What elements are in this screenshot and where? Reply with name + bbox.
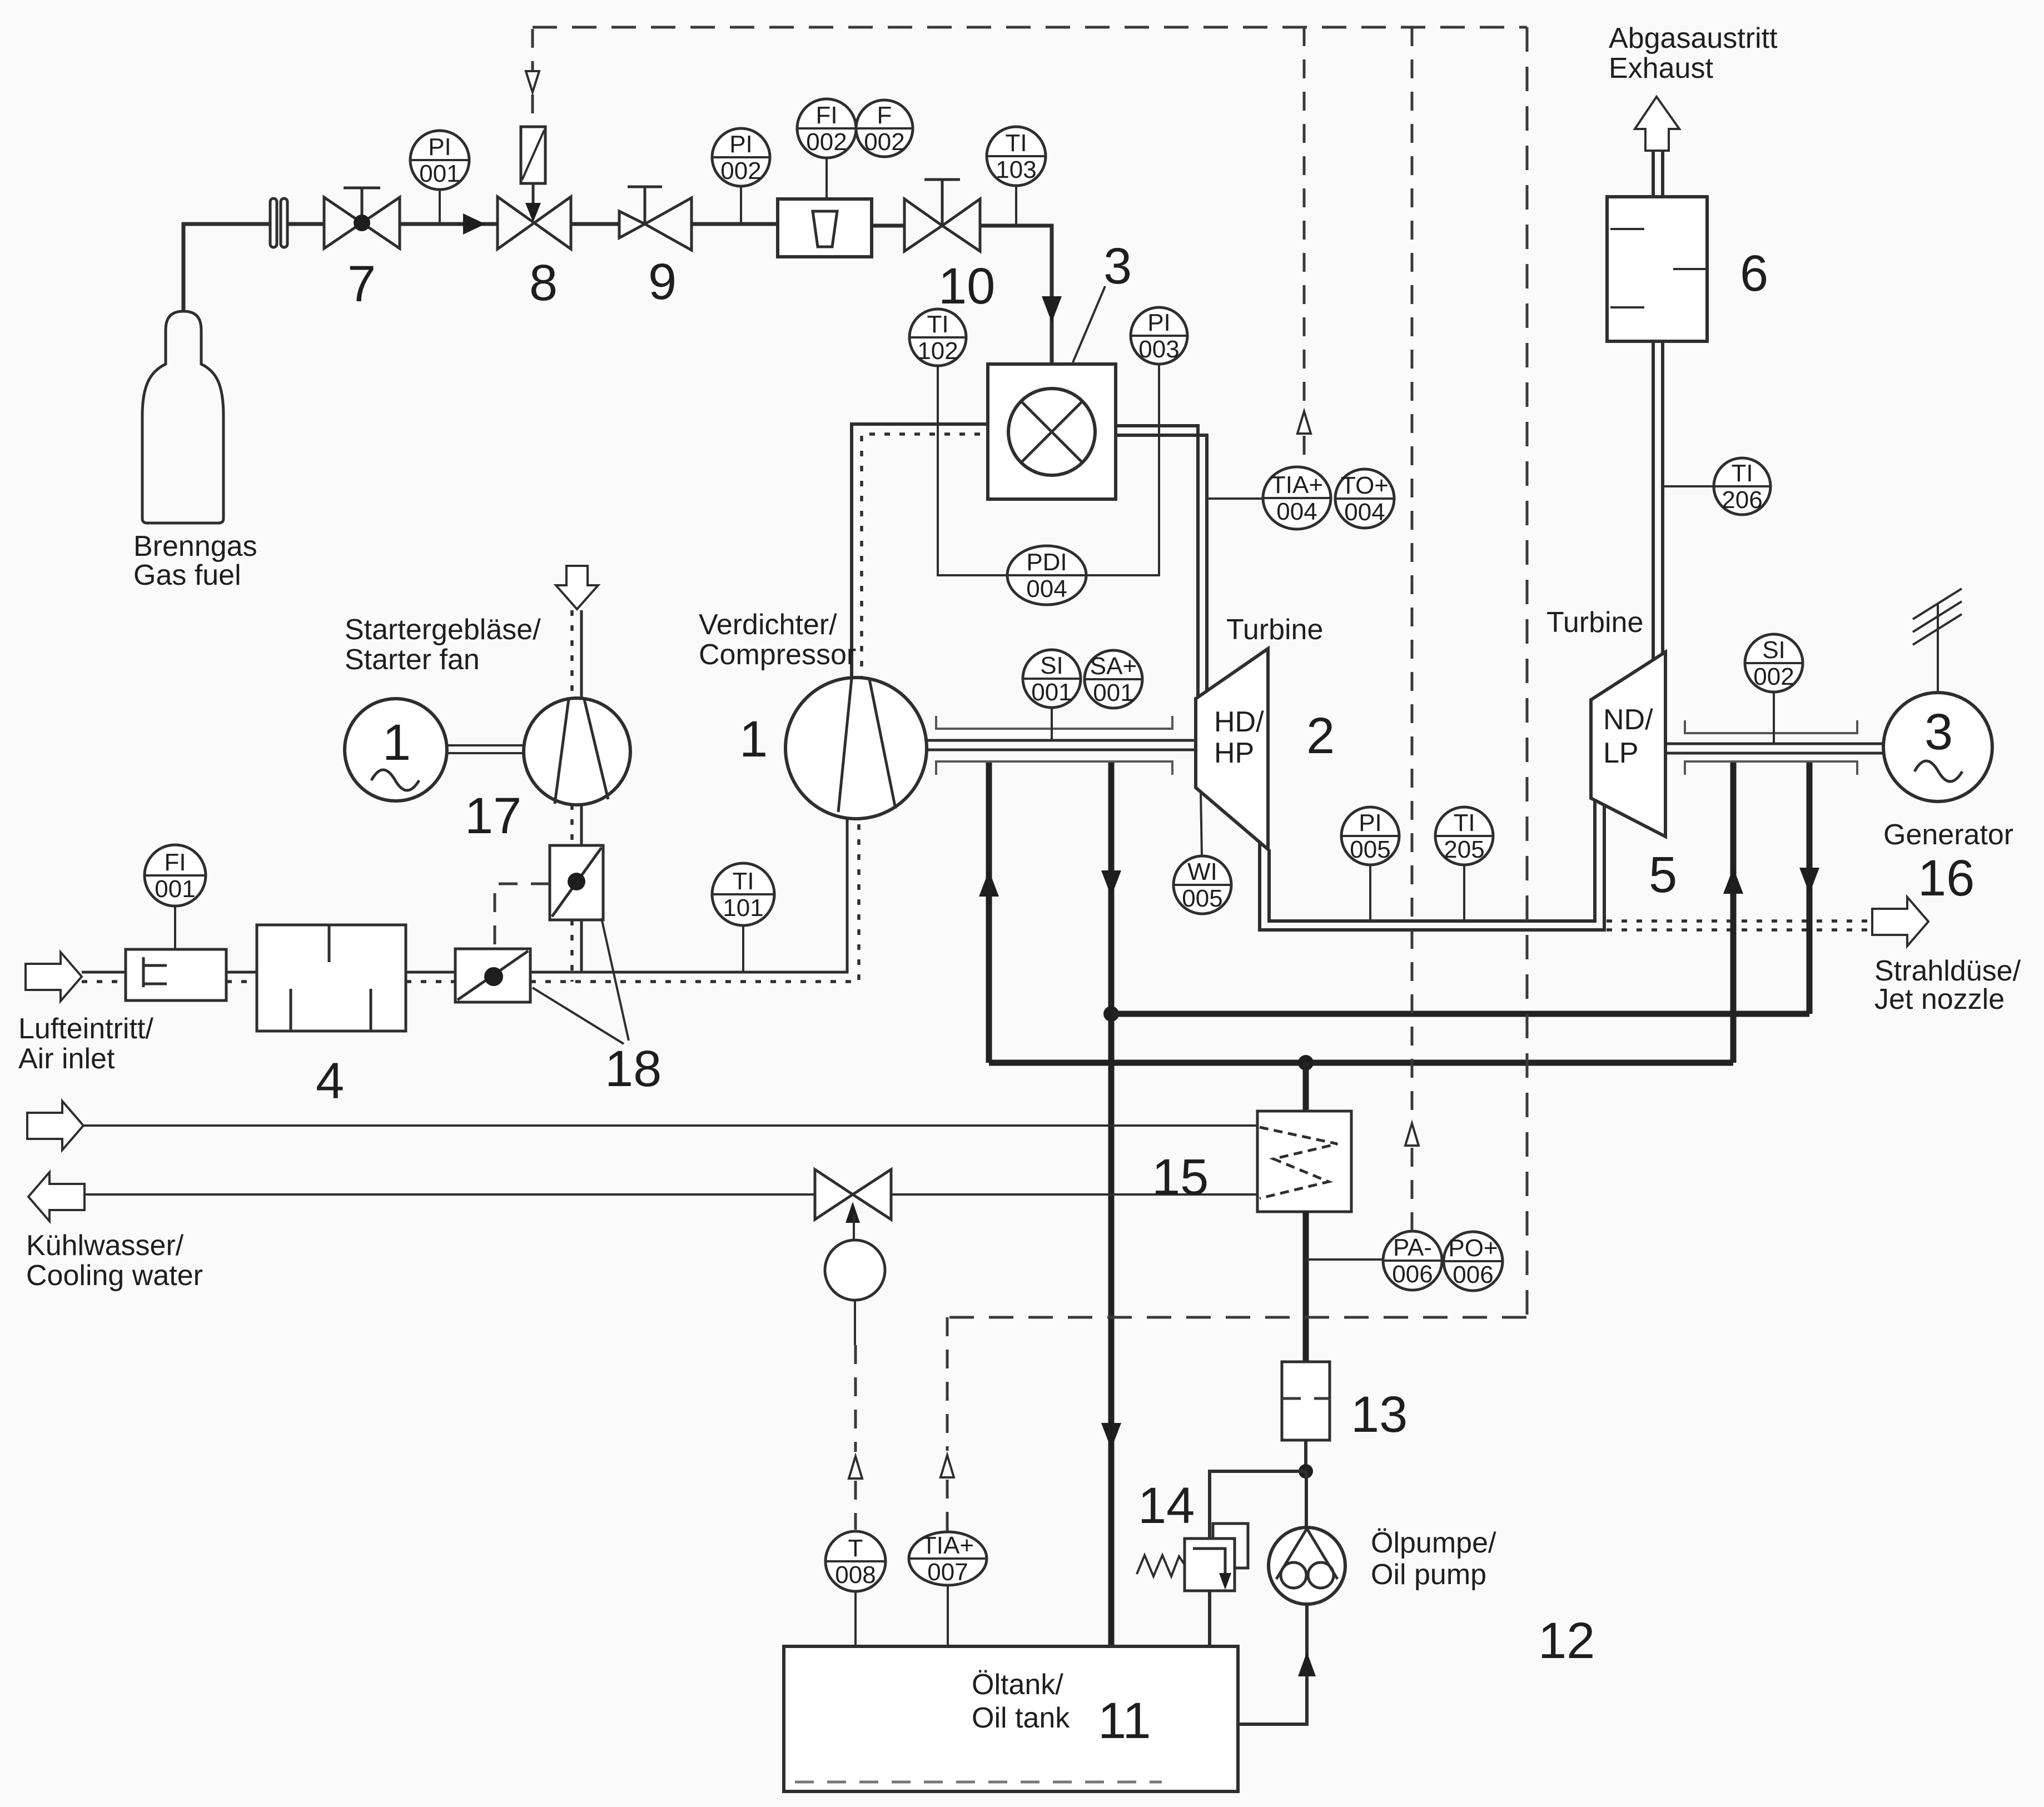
wire junction to relief valve 14 — [1210, 1471, 1306, 1539]
instrument WI 005 — [1173, 856, 1231, 914]
svg-text:8: 8 — [529, 255, 558, 311]
instrument TI 206 — [1714, 458, 1771, 515]
instrument TI 205 — [1463, 865, 1465, 921]
svg-text:TI: TI — [1005, 130, 1027, 157]
svg-text:1: 1 — [739, 711, 768, 768]
svg-text:HP: HP — [1214, 737, 1254, 769]
oil supply header — [989, 1060, 1733, 1066]
svg-text:Verdichter/: Verdichter/ — [699, 609, 837, 641]
svg-text:ND/: ND/ — [1603, 704, 1653, 736]
svg-text:PO+: PO+ — [1448, 1234, 1498, 1262]
instrument TI 103 — [1015, 186, 1017, 225]
oil return line B (to tank) — [1108, 763, 1115, 1646]
svg-text:005: 005 — [1182, 885, 1222, 912]
instrument FI 002 — [825, 158, 828, 199]
lead to TIA+/TO+ 004 — [1207, 497, 1264, 500]
svg-text:15: 15 — [1152, 1149, 1209, 1206]
oil drop line D (LP bearing return) — [1807, 763, 1813, 1014]
svg-text:Cooling water: Cooling water — [26, 1260, 203, 1292]
cooling water supply line — [83, 1124, 1257, 1127]
instrument TO+ 004 — [1335, 469, 1394, 528]
oil drop line C (LP bearing supply) — [1730, 763, 1737, 1063]
dashed signal actuator to T 008 — [854, 1300, 856, 1345]
svg-text:PI: PI — [1147, 309, 1171, 336]
label 3 with pointer — [1073, 286, 1105, 362]
lead to TI 206 — [1663, 485, 1714, 487]
duct fan to damper 18a — [580, 804, 583, 845]
oil drop line A (compressor bearing supply) — [986, 763, 992, 1063]
svg-text:FI: FI — [815, 102, 837, 129]
svg-text:002: 002 — [806, 128, 847, 156]
wire valve 10 to combustor with arrow — [980, 226, 1052, 364]
svg-text:TI: TI — [1453, 809, 1475, 837]
svg-text:11: 11 — [1098, 1692, 1151, 1749]
svg-text:Brenngas: Brenngas — [133, 530, 257, 562]
svg-text:4: 4 — [316, 1053, 344, 1109]
svg-text:PA-: PA- — [1393, 1234, 1432, 1261]
svg-text:008: 008 — [835, 1561, 876, 1589]
svg-text:Startergebläse/: Startergebläse/ — [345, 614, 541, 646]
valve 8 (solenoid operated) — [498, 197, 571, 249]
svg-text:Gas fuel: Gas fuel — [133, 559, 241, 591]
instrument F 002 — [856, 100, 913, 157]
oil filter 13 — [1282, 1362, 1330, 1440]
exhaust pipe LP to silencer — [1652, 341, 1655, 660]
damper 18b — [455, 949, 530, 1002]
LP turbine 5 — [1591, 652, 1665, 837]
oil line HX to filter 13 — [1303, 1212, 1309, 1362]
valve actuator circle — [825, 1240, 885, 1300]
svg-text:Jet nozzle: Jet nozzle — [1874, 983, 2005, 1015]
oil return header — [1111, 1011, 1809, 1017]
combustor outlet pipe to HP turbine — [1116, 426, 1198, 696]
generator grid connection line — [1937, 603, 1939, 693]
svg-text:HD/: HD/ — [1214, 706, 1264, 738]
inline flange fitting — [270, 198, 277, 247]
jet nozzle dotted lines — [1607, 919, 1872, 923]
svg-text:006: 006 — [1392, 1261, 1433, 1288]
cooling water control valve — [815, 1169, 891, 1219]
svg-text:004: 004 — [1344, 499, 1385, 526]
instrument T 008 — [854, 1591, 857, 1646]
PDI loop left line — [938, 366, 1007, 575]
dashed signal to PA- 006 — [1411, 27, 1414, 1119]
grid slashes — [1913, 589, 1962, 645]
instrument PO+ 006 — [1444, 1232, 1503, 1291]
svg-text:004: 004 — [1026, 575, 1067, 603]
vent/solenoid actuator above valve 8 — [531, 29, 534, 70]
svg-text:6: 6 — [1740, 245, 1768, 302]
svg-text:2: 2 — [1306, 708, 1335, 764]
svg-text:T: T — [848, 1535, 863, 1562]
svg-text:9: 9 — [648, 253, 677, 310]
instrument PDI 004 — [1007, 546, 1086, 605]
label 18 with pointer lines — [533, 988, 624, 1044]
svg-text:3: 3 — [1103, 238, 1132, 295]
instrument TIA+ 004 — [1263, 467, 1331, 529]
oil tank 11 — [784, 1646, 1238, 1791]
svg-text:Lufteintritt/: Lufteintritt/ — [18, 1013, 153, 1045]
svg-text:001: 001 — [1093, 679, 1133, 706]
svg-text:Strahldüse/: Strahldüse/ — [1874, 955, 2021, 987]
svg-text:006: 006 — [1453, 1261, 1493, 1288]
instrument FI 001 — [174, 906, 176, 949]
combustor 3 housing — [988, 364, 1116, 499]
relief valve 14 — [1213, 1524, 1248, 1568]
instrument TI 102 — [909, 309, 966, 366]
svg-text:004: 004 — [1276, 498, 1317, 525]
dashed signal line to TIA+ 007 — [947, 1316, 1526, 1319]
svg-text:Turbine: Turbine — [1226, 614, 1323, 646]
valve 9 (hand valve) — [619, 198, 692, 250]
wire flow meter to valve 10 — [872, 224, 904, 228]
bearing bracket lower (LP-gen) — [1685, 761, 1857, 775]
cooling water supply arrow — [27, 1101, 83, 1150]
svg-text:001: 001 — [419, 160, 460, 187]
instrument TIA+ 007 — [947, 1585, 949, 1646]
svg-text:002: 002 — [1753, 663, 1794, 690]
svg-text:Compressor: Compressor — [699, 639, 856, 671]
dashed signal vertical right — [1526, 27, 1529, 1317]
compressor 1 — [785, 678, 927, 819]
wire valve 8 to valve 9 — [571, 222, 619, 226]
svg-text:WI: WI — [1187, 858, 1217, 885]
svg-text:Oil pump: Oil pump — [1371, 1559, 1486, 1591]
air inlet wire to measuring device — [82, 971, 126, 974]
svg-text:Starter fan: Starter fan — [345, 644, 480, 676]
svg-text:205: 205 — [1444, 836, 1484, 863]
starter air dotted line to compressor inlet — [530, 818, 859, 982]
bearing bracket lower (comp-HP) — [936, 761, 1172, 775]
svg-text:007: 007 — [927, 1559, 968, 1586]
svg-text:Generator: Generator — [1883, 819, 2013, 851]
svg-text:002: 002 — [864, 128, 904, 156]
svg-text:PI: PI — [428, 133, 451, 161]
svg-text:SI: SI — [1040, 652, 1063, 679]
svg-text:101: 101 — [723, 894, 763, 922]
cooling water return line — [84, 1193, 815, 1196]
wire device to silencer 4 — [226, 971, 257, 974]
wire valve 7 to valve 8 with flow arrow — [400, 222, 498, 226]
svg-text:16: 16 — [1918, 850, 1975, 907]
air inlet arrow (Lufteintritt) — [26, 952, 82, 1001]
starter shaft — [447, 744, 524, 746]
svg-text:102: 102 — [917, 337, 958, 365]
shaft LP to generator — [1665, 743, 1883, 745]
svg-text:5: 5 — [1649, 847, 1677, 903]
svg-text:12: 12 — [1538, 1612, 1595, 1669]
svg-text:PI: PI — [1359, 809, 1382, 837]
svg-text:10: 10 — [938, 258, 995, 315]
instrument SA+ 001 — [1085, 650, 1142, 708]
instrument PI 005 — [1369, 865, 1371, 921]
svg-text:103: 103 — [996, 156, 1036, 183]
svg-text:LP: LP — [1603, 737, 1639, 769]
air line to compressor inlet — [530, 818, 847, 972]
svg-text:005: 005 — [1350, 836, 1390, 863]
svg-text:SI: SI — [1762, 636, 1786, 664]
crossover pipe HP to LP — [1260, 806, 1604, 930]
svg-text:FI: FI — [164, 849, 186, 876]
svg-text:13: 13 — [1351, 1386, 1408, 1443]
junction node on supply header — [1298, 1055, 1314, 1071]
shaft compressor to HP turbine — [927, 739, 1196, 742]
dashed signal to TIA+ 004 — [1303, 27, 1306, 407]
instrument PA- 006 — [1383, 1231, 1442, 1290]
burner circle — [1008, 389, 1095, 475]
svg-text:Kühlwasser/: Kühlwasser/ — [26, 1229, 184, 1262]
instrument PI 002 — [740, 186, 742, 222]
wire relief valve to tank — [1208, 1591, 1211, 1646]
cooling water return arrow — [28, 1172, 84, 1221]
svg-text:002: 002 — [720, 157, 761, 185]
svg-text:3: 3 — [1924, 704, 1953, 760]
lead to PA-/PO+ 006 — [1306, 1258, 1385, 1261]
air pipe compressor to combustor — [852, 424, 988, 679]
jet nozzle arrow (Strahlduese) — [1872, 897, 1928, 946]
svg-text:Abgasaustritt: Abgasaustritt — [1609, 22, 1778, 54]
wire bottle to flange — [183, 224, 271, 311]
instrument PI 001 — [439, 189, 441, 222]
valve 7 (hand valve, closed dot) — [324, 197, 400, 248]
heat exchanger 15 — [1257, 1111, 1351, 1212]
svg-text:Oil tank: Oil tank — [972, 1702, 1070, 1734]
svg-text:F: F — [877, 102, 892, 129]
svg-text:14: 14 — [1138, 1477, 1195, 1534]
svg-text:TI: TI — [1731, 460, 1753, 487]
svg-text:Öltank/: Öltank/ — [972, 1669, 1063, 1701]
exhaust silencer 6 — [1607, 197, 1707, 341]
svg-text:7: 7 — [347, 256, 376, 312]
junction node on return line — [1103, 1006, 1119, 1022]
svg-text:18: 18 — [605, 1041, 662, 1097]
svg-text:TIA+: TIA+ — [1271, 471, 1323, 499]
instrument PI 003 — [1131, 307, 1187, 364]
wire valve 9 to flow meter — [692, 222, 778, 226]
svg-text:001: 001 — [1031, 679, 1072, 706]
svg-text:TI: TI — [732, 868, 754, 895]
svg-text:17: 17 — [465, 788, 521, 844]
pump suction from tank — [1240, 1604, 1307, 1724]
hollow arrow above starter fan — [556, 566, 598, 609]
FI 001 measuring device — [126, 949, 226, 1000]
exhaust arrow (Abgasaustritt) — [1635, 97, 1679, 151]
svg-text:TI: TI — [927, 311, 948, 338]
flow meter (rotameter) 10 inlet — [778, 199, 872, 257]
lead to WI 005 — [1201, 792, 1202, 856]
svg-text:206: 206 — [1722, 486, 1762, 514]
svg-text:PDI: PDI — [1026, 549, 1067, 576]
bearing bracket upper (comp-HP) — [936, 716, 1172, 729]
starter fan 17 — [524, 698, 630, 805]
oil pump 12 — [1269, 1527, 1345, 1604]
svg-text:001: 001 — [155, 875, 195, 903]
valve 10 (control valve) — [904, 199, 980, 251]
svg-text:Exhaust: Exhaust — [1609, 52, 1713, 84]
damper 18a — [550, 845, 603, 920]
svg-text:TIA+: TIA+ — [922, 1532, 974, 1559]
generator 3 — [1883, 693, 1992, 802]
starter air dotted line to combustor — [862, 434, 988, 681]
dashed signal bus (top) — [533, 26, 1527, 29]
svg-text:SA+: SA+ — [1090, 653, 1137, 680]
instrument SI 001 — [1051, 707, 1053, 740]
svg-text:003: 003 — [1138, 336, 1179, 363]
dashed link between dampers — [495, 884, 550, 949]
oil line to heat exchanger — [1303, 1063, 1309, 1111]
svg-text:1: 1 — [382, 714, 411, 771]
air filter/silencer 4 — [257, 925, 406, 1031]
HP turbine 2 — [1196, 649, 1268, 849]
instrument SI 002 — [1773, 691, 1775, 744]
wire filter to junction — [1304, 1440, 1307, 1472]
svg-text:Ölpumpe/: Ölpumpe/ — [1371, 1527, 1496, 1559]
wire junction to oil pump — [1305, 1471, 1308, 1529]
svg-text:TO+: TO+ — [1341, 472, 1389, 499]
svg-text:Air inlet: Air inlet — [18, 1043, 115, 1075]
instrument TI 101 — [742, 925, 744, 972]
pipe silencer to exhaust arrow — [1652, 151, 1655, 197]
svg-text:PI: PI — [729, 131, 753, 158]
PDI loop right line — [1086, 365, 1159, 575]
svg-text:Turbine: Turbine — [1546, 606, 1643, 639]
starter motor 1 — [345, 699, 447, 801]
wire flange to valve 7 — [287, 222, 324, 226]
gas bottle (Brenngas) — [142, 311, 223, 523]
bearing bracket upper (LP-gen) — [1685, 720, 1857, 733]
duct damper 18a to air line — [580, 920, 583, 972]
wire silencer to damper 18b — [406, 971, 455, 974]
